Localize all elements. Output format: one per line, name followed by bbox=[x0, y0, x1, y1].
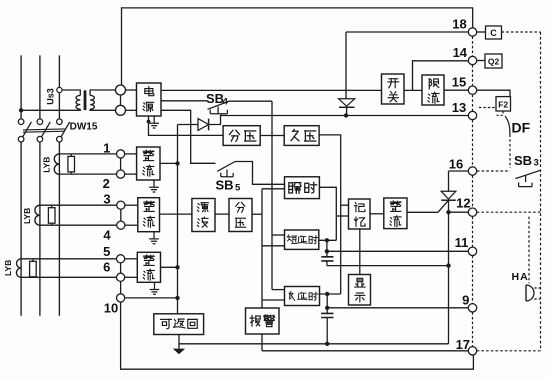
svg-text:5: 5 bbox=[103, 244, 110, 259]
wire terminal 5-6 link bbox=[120, 263, 122, 273]
current transformer LYB1 bbox=[54, 154, 59, 175]
transformer T1 core bbox=[84, 90, 87, 110]
svg-text:3: 3 bbox=[534, 158, 539, 169]
wire terminal 5 to rectifier U3 bbox=[125, 258, 138, 260]
bell HA bbox=[525, 285, 527, 301]
wire signal rail bbox=[262, 189, 285, 308]
svg-text:LYB: LYB bbox=[3, 260, 13, 276]
svg-text:DW15: DW15 bbox=[70, 121, 98, 132]
wire LYB3 to terminal 6 bbox=[21, 276, 116, 278]
pushbutton SB5 bbox=[217, 162, 235, 177]
undervoltage unit QY bbox=[284, 126, 319, 146]
diode V2 bbox=[198, 119, 209, 131]
terminal 5 bbox=[117, 255, 125, 263]
wire memory to display bbox=[359, 229, 361, 275]
short-delay unit DYS bbox=[285, 230, 319, 249]
diode V1 bbox=[345, 32, 347, 99]
svg-text:13: 13 bbox=[452, 100, 466, 115]
dashed terminal 12 branch bbox=[477, 211, 541, 213]
svg-text:12: 12 bbox=[456, 195, 470, 210]
release unit F2 bbox=[496, 97, 511, 111]
wire instantaneous to memory stub bbox=[336, 215, 348, 217]
wire long-delay cap branch bbox=[326, 294, 328, 313]
wire to diode V2 bbox=[178, 124, 199, 126]
ground symbol main bbox=[173, 349, 185, 355]
svg-text:5: 5 bbox=[235, 182, 241, 193]
ground under rectifier U3 bbox=[154, 282, 156, 285]
svg-text:6: 6 bbox=[103, 260, 110, 275]
svg-text:3: 3 bbox=[103, 192, 110, 207]
wire PT secondary bottom lead bbox=[90, 109, 115, 110]
terminal 11 bbox=[468, 247, 476, 255]
svg-text:11: 11 bbox=[455, 235, 469, 250]
thyristor V3 gate bbox=[438, 201, 448, 213]
svg-text:C: C bbox=[490, 28, 497, 38]
dashed terminal column bbox=[472, 36, 474, 346]
divider unit FY2 bbox=[229, 199, 252, 232]
breaker trip contact DF bbox=[505, 116, 510, 135]
junction thyristor cathode line 12 bbox=[446, 210, 450, 214]
wire between PT nodes bbox=[120, 95, 122, 105]
wire phase bus L3 bbox=[58, 55, 60, 315]
breaker DW15 pole 2 bbox=[42, 122, 51, 137]
resistor R1 bbox=[70, 154, 72, 174]
wire supply rail B vertical bbox=[271, 101, 273, 289]
wire PT secondary top lead bbox=[90, 90, 115, 95]
wire terminal 3 to rectifier U2 bbox=[125, 204, 138, 206]
thyristor V3 bbox=[448, 171, 450, 191]
wire resettable ground stem bbox=[178, 335, 180, 349]
junction short-delay output bbox=[325, 238, 329, 242]
pushbutton SB3 bbox=[515, 170, 540, 186]
wire capacitor C2 lower lead bbox=[326, 318, 328, 344]
breaker DW15 pole 1 bbox=[23, 122, 32, 137]
wire terminal 2 to rectifier U1 bbox=[125, 173, 137, 175]
junction terminal 10 wire bbox=[175, 296, 179, 300]
junction diode V1 / line 13 bbox=[344, 113, 348, 117]
svg-text:DF: DF bbox=[512, 120, 531, 136]
wire LYB1 to terminal 2 bbox=[59, 173, 116, 175]
wire long-delay output bbox=[320, 293, 341, 295]
wire line 12 bbox=[449, 211, 469, 213]
terminal 15 bbox=[468, 86, 476, 94]
terminal 12 bbox=[468, 208, 476, 216]
wire undervoltage to memory stub bbox=[341, 204, 349, 206]
svg-text:Us3: Us3 bbox=[46, 88, 56, 105]
switch unit KG bbox=[382, 74, 405, 104]
dashed contact C bus bbox=[502, 31, 541, 33]
wire terminal 6 to rectifier U3 bbox=[125, 276, 138, 278]
wire rectifier U2 to filter bbox=[160, 213, 192, 215]
wire alarm to line 17 bbox=[261, 334, 263, 351]
transformer T1 primary winding bbox=[76, 95, 80, 109]
wire supply line B bbox=[161, 100, 207, 102]
breaker DW15 pole 3 bbox=[61, 122, 69, 137]
wire instantaneous output bbox=[319, 187, 336, 240]
junction cathode return bbox=[446, 263, 450, 267]
wire LYB1 to terminal 1 bbox=[59, 153, 116, 155]
wire short-delay cap branch bbox=[326, 240, 328, 256]
filter unit LB bbox=[192, 199, 215, 232]
wire SB4 drop to line 13 bbox=[220, 114, 222, 116]
dashed DF to node 16 bbox=[509, 135, 511, 169]
junction line 11 tap bbox=[325, 249, 329, 253]
terminal 16 bbox=[468, 167, 476, 175]
wire supply line C bbox=[161, 110, 216, 163]
wire filter to divider FY2 bbox=[215, 213, 229, 215]
long-delay unit CYS bbox=[285, 287, 320, 306]
wire terminal 18 feed bbox=[346, 31, 468, 33]
wire diode V2 to line 13 bbox=[209, 116, 221, 125]
wire divider FY2 output bbox=[252, 213, 262, 215]
wire terminal 4 to rectifier U2 bbox=[125, 224, 138, 226]
wire LYB3 to terminal 5 bbox=[21, 258, 116, 260]
svg-text:4: 4 bbox=[223, 97, 229, 108]
capacitor C2 bbox=[321, 313, 333, 317]
dashed F2 to terminal 13 bbox=[479, 107, 496, 109]
display unit XS bbox=[349, 275, 371, 306]
wire SB4 to node B2 bbox=[230, 100, 273, 102]
wire rail B to short-delay bbox=[272, 234, 285, 236]
wire ground rail bbox=[179, 343, 449, 345]
terminal 17 bbox=[468, 347, 476, 355]
wire divider FY1 to undervoltage bbox=[260, 135, 284, 137]
wire terminal 1-2 link bbox=[120, 158, 122, 170]
wire bottom return 10-17 bbox=[121, 302, 474, 369]
alarm unit BJ bbox=[246, 308, 280, 334]
wire LYB2 to terminal 3 bbox=[40, 204, 117, 206]
rectifier unit U4 bbox=[384, 198, 407, 229]
wire line 14 bbox=[413, 61, 469, 91]
wire power ground branch bbox=[149, 116, 224, 135]
pushbutton SB4 bbox=[208, 101, 230, 114]
capacitor C1 bbox=[321, 257, 333, 261]
wire LYB2 to terminal 4 bbox=[40, 224, 117, 226]
svg-text:14: 14 bbox=[453, 45, 468, 60]
wire line 17 bbox=[262, 350, 468, 352]
svg-text:LYB: LYB bbox=[22, 208, 32, 224]
dashed bell feed bbox=[528, 217, 530, 284]
wire terminal 14 to Q2 bbox=[477, 60, 485, 62]
node PT output lower bbox=[116, 105, 126, 115]
wire PT to power unit bottom bbox=[126, 109, 137, 111]
svg-text:2: 2 bbox=[103, 176, 110, 191]
wire phase bus L1 bbox=[20, 55, 22, 315]
wire signal rail to short-delay bbox=[262, 245, 285, 247]
terminal 14 bbox=[468, 56, 476, 64]
wire cathode return line bbox=[327, 265, 449, 267]
wire terminal 18 to contact C bbox=[477, 31, 486, 33]
terminal 2 bbox=[117, 170, 125, 178]
junction line 9 tap bbox=[325, 306, 329, 310]
svg-text:1: 1 bbox=[103, 140, 110, 155]
svg-text:15: 15 bbox=[452, 74, 466, 89]
wire line 9 bbox=[327, 307, 468, 309]
wire capacitor C1 lower lead bbox=[326, 261, 328, 266]
svg-text:4: 4 bbox=[103, 228, 111, 243]
junction bus L1 / PT bbox=[19, 108, 23, 112]
dashed right bus bbox=[540, 32, 542, 351]
terminal 3 bbox=[117, 201, 125, 209]
wire short-delay output bbox=[319, 239, 337, 241]
ground under rectifier U2 bbox=[153, 232, 155, 235]
wire rectifier U1 output bbox=[160, 162, 178, 164]
wire terminal 1 to rectifier U1 bbox=[125, 153, 137, 155]
svg-text:SB: SB bbox=[514, 153, 532, 168]
svg-text:SB: SB bbox=[206, 91, 224, 106]
wire memory to rectifier U4 bbox=[370, 213, 384, 215]
resistor R2 bbox=[51, 205, 53, 225]
wire sense bus vertical bbox=[177, 125, 179, 314]
wire phase bus L2 bbox=[39, 55, 41, 315]
wire terminal 3-4 link bbox=[120, 209, 122, 221]
terminal 18 bbox=[468, 28, 476, 36]
wire terminal 6-10 link bbox=[120, 281, 122, 293]
wire top frame bbox=[122, 8, 473, 85]
wire terminal 15 to F2 bbox=[477, 90, 510, 96]
wire PT primary top lead bbox=[62, 90, 80, 95]
svg-text:F2: F2 bbox=[498, 99, 508, 109]
breaker DW15 linkage bbox=[23, 129, 65, 132]
wire supply line A bbox=[161, 89, 382, 91]
svg-text:17: 17 bbox=[456, 337, 470, 352]
junction long-delay output bbox=[325, 292, 329, 296]
svg-text:HA: HA bbox=[512, 271, 529, 283]
wire rail B to long-delay bbox=[272, 289, 285, 291]
resettable unit KFH bbox=[154, 314, 204, 335]
ground under power unit bbox=[153, 116, 155, 119]
svg-text:Q2: Q2 bbox=[488, 56, 500, 66]
svg-text:LYB: LYB bbox=[42, 157, 52, 173]
transformer T1 secondary winding bbox=[90, 95, 94, 109]
current transformer LYB3 bbox=[16, 259, 21, 278]
rectifier unit U3 bbox=[137, 252, 160, 282]
terminal 1 bbox=[117, 150, 125, 158]
wire undervoltage output bbox=[319, 135, 341, 294]
wire PT to power unit top bbox=[126, 89, 137, 91]
ground under rectifier U1 bbox=[153, 180, 155, 183]
junction power ground bbox=[147, 120, 151, 124]
instantaneous unit SS bbox=[285, 177, 320, 199]
dashed line 17 extension bbox=[477, 350, 541, 352]
wire line 16 bbox=[449, 170, 469, 172]
wire line 13 bbox=[221, 115, 469, 117]
svg-text:9: 9 bbox=[462, 292, 469, 307]
terminal 10 bbox=[117, 294, 125, 302]
wire line 15 bbox=[444, 89, 468, 91]
svg-text:18: 18 bbox=[452, 17, 466, 32]
wire SB5 to instantaneous unit bbox=[235, 162, 285, 185]
wire rectifier U3 output bbox=[161, 266, 178, 268]
resistor R3 bbox=[32, 259, 34, 278]
svg-text:16: 16 bbox=[449, 157, 463, 172]
rectifier unit U2 bbox=[138, 198, 160, 232]
wire PT primary bottom lead bbox=[21, 109, 80, 110]
wire line 11 bbox=[327, 250, 468, 252]
auxiliary contact C bbox=[486, 26, 502, 39]
svg-text:10: 10 bbox=[104, 300, 118, 315]
wire switch to current-limit bbox=[404, 89, 422, 91]
memory unit JY bbox=[349, 199, 371, 229]
svg-text:SB: SB bbox=[216, 177, 234, 192]
wire terminal 10 to sense bus bbox=[125, 297, 178, 299]
power unit box bbox=[137, 83, 162, 116]
terminal 6 bbox=[117, 273, 125, 281]
rectifier unit U1 bbox=[137, 147, 160, 180]
terminal 4 bbox=[117, 221, 125, 229]
junction ground rail tap bbox=[325, 342, 329, 346]
current-limit unit XL bbox=[422, 75, 444, 105]
terminal 9 bbox=[468, 304, 476, 312]
node Us3 terminal bbox=[57, 87, 62, 92]
current transformer LYB2 bbox=[35, 205, 40, 225]
wire rectifier U4 output bbox=[407, 211, 438, 213]
dashed bell to bus bbox=[534, 288, 540, 299]
voltage divider unit FY1 bbox=[223, 126, 260, 146]
junction rectifier U1 output bbox=[175, 161, 179, 165]
junction rectifier U3 output bbox=[175, 265, 179, 269]
terminal 13 bbox=[468, 111, 476, 119]
release unit Q2 bbox=[485, 54, 502, 68]
wire signal rail to long-delay bbox=[262, 299, 285, 301]
node PT output upper bbox=[116, 85, 126, 95]
